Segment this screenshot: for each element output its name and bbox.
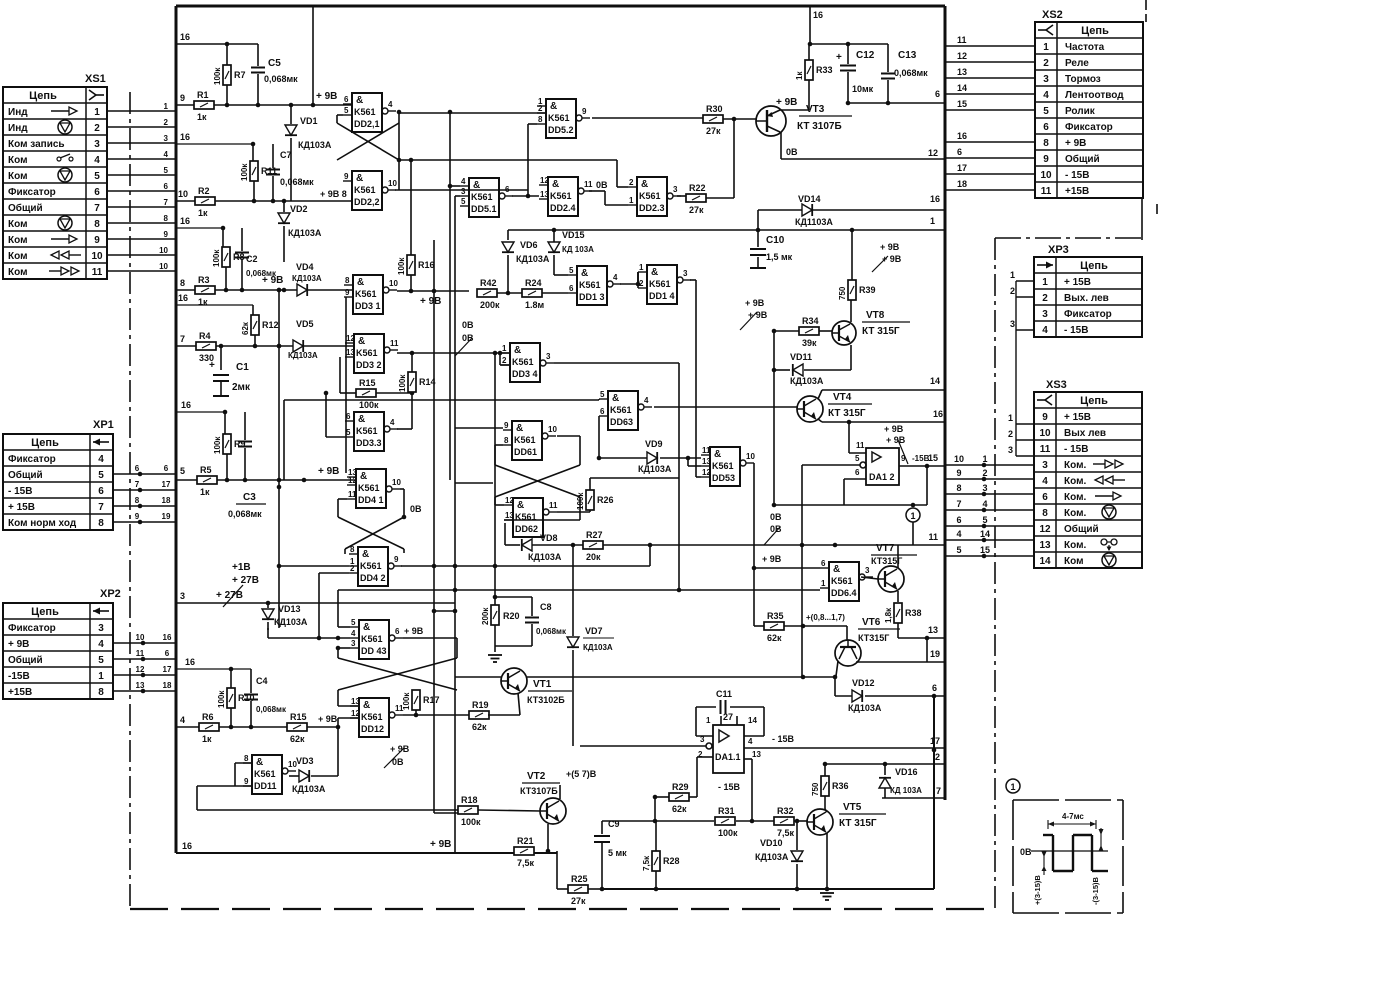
svg-text:5: 5 xyxy=(461,197,466,206)
svg-text:16: 16 xyxy=(180,32,190,42)
svg-text:12: 12 xyxy=(351,709,360,718)
svg-text:R27: R27 xyxy=(586,530,603,540)
svg-text:14: 14 xyxy=(957,83,967,93)
svg-text:0В: 0В xyxy=(770,524,782,534)
svg-text:R7: R7 xyxy=(234,70,246,80)
svg-text:R17: R17 xyxy=(423,695,440,705)
svg-text:+ 9В: + 9В xyxy=(318,466,339,477)
svg-text:Реле: Реле xyxy=(1065,58,1089,69)
svg-text:-15В: -15В xyxy=(8,671,30,682)
svg-text:+ 27В: + 27В xyxy=(232,575,259,586)
svg-text:16: 16 xyxy=(813,10,823,20)
svg-text:DD4 2: DD4 2 xyxy=(360,573,386,583)
svg-text:Инд: Инд xyxy=(8,107,28,118)
svg-text:0В: 0В xyxy=(786,147,798,157)
svg-text:9: 9 xyxy=(394,555,399,564)
svg-text:6: 6 xyxy=(164,464,169,473)
svg-text:2: 2 xyxy=(1008,429,1013,439)
svg-text:VT5: VT5 xyxy=(843,802,862,813)
svg-text:&: & xyxy=(362,549,369,560)
svg-text:K561: K561 xyxy=(356,426,378,436)
svg-text:8: 8 xyxy=(135,496,140,505)
svg-text:11: 11 xyxy=(856,441,865,450)
svg-text:17: 17 xyxy=(930,736,940,746)
svg-text:12: 12 xyxy=(928,148,938,158)
svg-text:DA1.1: DA1.1 xyxy=(715,752,741,762)
svg-text:6: 6 xyxy=(935,89,940,99)
svg-text:C10: C10 xyxy=(766,235,785,246)
svg-text:10: 10 xyxy=(392,478,401,487)
svg-text:+ 9В 8: + 9В 8 xyxy=(320,189,347,199)
svg-text:R12: R12 xyxy=(262,320,279,330)
svg-text:0,068мк: 0,068мк xyxy=(228,509,262,519)
svg-text:R35: R35 xyxy=(767,611,784,621)
svg-text:12: 12 xyxy=(702,468,711,477)
svg-text:3: 3 xyxy=(164,134,169,143)
svg-text:&: & xyxy=(360,471,367,482)
svg-text:Вых лев: Вых лев xyxy=(1064,428,1106,439)
svg-text:8: 8 xyxy=(244,754,249,763)
svg-text:C13: C13 xyxy=(898,50,917,61)
svg-text:13: 13 xyxy=(1039,540,1051,551)
svg-text:5: 5 xyxy=(982,515,987,525)
svg-text:КТ 3107Б: КТ 3107Б xyxy=(797,121,842,132)
svg-text:VD1: VD1 xyxy=(300,116,318,126)
svg-text:VD2: VD2 xyxy=(290,204,308,214)
svg-text:Ком: Ком xyxy=(1064,556,1083,567)
svg-text:DD2,1: DD2,1 xyxy=(354,119,380,129)
svg-text:3: 3 xyxy=(98,623,104,634)
svg-text:8: 8 xyxy=(345,276,350,285)
svg-text:1: 1 xyxy=(930,216,935,226)
svg-text:&: & xyxy=(516,423,523,434)
svg-text:0В: 0В xyxy=(462,320,474,330)
svg-text:1: 1 xyxy=(1042,277,1048,288)
svg-text:39к: 39к xyxy=(802,338,817,348)
svg-text:Ком.: Ком. xyxy=(1064,476,1086,487)
svg-text:16: 16 xyxy=(933,409,943,419)
svg-text:DD11: DD11 xyxy=(254,781,277,791)
svg-text:R15: R15 xyxy=(290,712,307,722)
svg-text:C1: C1 xyxy=(236,362,249,373)
svg-text:5: 5 xyxy=(164,166,169,175)
svg-text:100к: 100к xyxy=(397,257,406,275)
svg-text:3: 3 xyxy=(546,352,551,361)
svg-text:Ком: Ком xyxy=(8,219,27,230)
svg-text:14: 14 xyxy=(930,376,940,386)
svg-text:27к: 27к xyxy=(571,896,586,906)
svg-text:9: 9 xyxy=(1043,154,1049,165)
svg-text:11: 11 xyxy=(928,532,938,542)
svg-text:2: 2 xyxy=(982,468,987,478)
svg-text:15: 15 xyxy=(957,99,967,109)
svg-text:R34: R34 xyxy=(802,316,819,326)
svg-text:K561: K561 xyxy=(354,107,376,117)
svg-text:&: & xyxy=(357,277,364,288)
svg-text:Инд: Инд xyxy=(8,123,28,134)
svg-text:1,8к: 1,8к xyxy=(884,607,893,623)
svg-text:&: & xyxy=(363,700,370,711)
svg-text:750: 750 xyxy=(838,286,847,300)
svg-text:+ 9В: + 9В xyxy=(1065,138,1086,149)
svg-text:13: 13 xyxy=(540,190,549,199)
svg-text:100к: 100к xyxy=(359,400,379,410)
svg-text:R39: R39 xyxy=(859,285,876,295)
svg-text:VD6: VD6 xyxy=(520,240,538,250)
svg-text:+ 9В: + 9В xyxy=(262,275,283,286)
svg-text:VT2: VT2 xyxy=(527,771,546,782)
svg-text:&: & xyxy=(714,449,721,460)
svg-text:+ 27В: + 27В xyxy=(216,590,243,601)
svg-text:DD61: DD61 xyxy=(514,447,537,457)
svg-text:1: 1 xyxy=(1010,782,1015,792)
svg-text:62к: 62к xyxy=(241,321,250,335)
svg-text:R15: R15 xyxy=(359,378,376,388)
svg-text:VD9: VD9 xyxy=(645,439,663,449)
svg-text:10: 10 xyxy=(548,425,557,434)
svg-text:4: 4 xyxy=(164,150,169,159)
svg-text:- 15В: - 15В xyxy=(1064,325,1088,336)
svg-text:&: & xyxy=(256,757,263,768)
svg-text:16: 16 xyxy=(957,131,967,141)
svg-text:КД103А: КД103А xyxy=(848,703,882,713)
svg-text:16: 16 xyxy=(180,216,190,226)
svg-text:4: 4 xyxy=(180,715,185,725)
svg-text:13: 13 xyxy=(752,750,761,759)
svg-text:КД103А: КД103А xyxy=(755,852,789,862)
svg-text:Тормоз: Тормоз xyxy=(1065,74,1101,85)
svg-text:R14: R14 xyxy=(419,377,436,387)
svg-text:3: 3 xyxy=(94,139,100,150)
svg-text:R28: R28 xyxy=(663,856,680,866)
svg-text:8: 8 xyxy=(1043,138,1049,149)
svg-text:КД 103А: КД 103А xyxy=(890,786,922,795)
svg-text:- 15В: - 15В xyxy=(1064,444,1088,455)
svg-text:4: 4 xyxy=(94,155,100,166)
svg-text:3: 3 xyxy=(351,639,356,648)
svg-text:8: 8 xyxy=(98,687,104,698)
svg-text:9: 9 xyxy=(244,777,249,786)
svg-text:16: 16 xyxy=(163,633,172,642)
svg-text:6: 6 xyxy=(344,95,349,104)
svg-text:Ком.: Ком. xyxy=(1064,492,1086,503)
svg-text:16: 16 xyxy=(182,841,192,851)
svg-text:&: & xyxy=(358,336,365,347)
svg-text:4-7мс: 4-7мс xyxy=(1062,812,1084,821)
svg-text:11: 11 xyxy=(1040,444,1051,455)
svg-text:R22: R22 xyxy=(689,183,706,193)
svg-text:6: 6 xyxy=(932,683,937,693)
svg-text:2: 2 xyxy=(1043,58,1049,69)
svg-text:1: 1 xyxy=(629,196,634,205)
svg-text:3: 3 xyxy=(1042,309,1048,320)
svg-text:100к: 100к xyxy=(398,374,407,392)
svg-text:2: 2 xyxy=(538,104,543,113)
svg-text:Ком.: Ком. xyxy=(1064,540,1086,551)
svg-text:3: 3 xyxy=(180,591,185,601)
svg-text:&: & xyxy=(517,500,524,511)
svg-text:3: 3 xyxy=(865,566,870,575)
svg-text:K561: K561 xyxy=(579,280,601,290)
svg-text:100к: 100к xyxy=(212,249,221,267)
svg-text:10: 10 xyxy=(389,279,398,288)
svg-text:1: 1 xyxy=(982,454,987,464)
svg-text:6: 6 xyxy=(957,147,962,157)
svg-text:DD62: DD62 xyxy=(515,524,538,534)
svg-text:7: 7 xyxy=(164,198,169,207)
svg-text:+1В: +1В xyxy=(232,562,251,573)
svg-text:КД103А: КД103А xyxy=(288,228,322,238)
svg-text:5: 5 xyxy=(855,454,860,463)
svg-text:5: 5 xyxy=(98,470,104,481)
svg-text:4: 4 xyxy=(98,454,104,465)
svg-text:1: 1 xyxy=(94,107,100,118)
svg-text:Цепь: Цепь xyxy=(1081,25,1109,37)
svg-text:DD12: DD12 xyxy=(361,724,384,734)
svg-text:R4: R4 xyxy=(199,331,211,341)
svg-text:12: 12 xyxy=(505,496,514,505)
svg-text:1к: 1к xyxy=(197,112,207,122)
svg-text:11: 11 xyxy=(702,446,711,455)
svg-text:Ком.: Ком. xyxy=(1064,460,1086,471)
svg-text:6: 6 xyxy=(600,407,605,416)
svg-text:-(3-15)В: -(3-15)В xyxy=(1091,876,1100,905)
svg-text:R19: R19 xyxy=(472,700,489,710)
svg-text:1к: 1к xyxy=(795,71,804,80)
svg-text:Цепь: Цепь xyxy=(1080,395,1108,407)
svg-text:6: 6 xyxy=(135,464,140,473)
svg-text:13: 13 xyxy=(957,67,967,77)
svg-text:200к: 200к xyxy=(481,607,490,625)
svg-text:Лентоотвод: Лентоотвод xyxy=(1065,90,1124,101)
svg-text:VD11: VD11 xyxy=(790,352,812,362)
svg-text:12: 12 xyxy=(1039,524,1051,535)
svg-text:&: & xyxy=(641,179,648,190)
svg-text:11: 11 xyxy=(549,501,558,510)
svg-text:R42: R42 xyxy=(480,278,497,288)
svg-text:10: 10 xyxy=(159,262,168,271)
svg-text:КТ315Г: КТ315Г xyxy=(858,633,889,643)
svg-text:Фиксатор: Фиксатор xyxy=(8,454,56,465)
svg-text:K561: K561 xyxy=(514,435,536,445)
svg-text:+ 9В: + 9В xyxy=(404,626,424,636)
svg-text:10: 10 xyxy=(954,454,964,464)
svg-text:3: 3 xyxy=(683,269,688,278)
svg-text:16: 16 xyxy=(185,657,195,667)
svg-text:КТ 315Г: КТ 315Г xyxy=(839,818,877,829)
svg-text:4: 4 xyxy=(1043,90,1049,101)
svg-text:0В: 0В xyxy=(410,504,422,514)
svg-text:+15В: +15В xyxy=(1065,186,1089,197)
svg-text:Ком запись: Ком запись xyxy=(8,139,65,150)
svg-text:XP1: XP1 xyxy=(93,419,114,431)
svg-text:+ 9В: + 9В xyxy=(884,424,904,434)
svg-text:2: 2 xyxy=(94,123,100,134)
svg-text:R18: R18 xyxy=(461,795,478,805)
svg-text:3: 3 xyxy=(673,185,678,194)
svg-text:КД103А: КД103А xyxy=(516,254,550,264)
svg-text:1к: 1к xyxy=(202,734,212,744)
svg-text:3: 3 xyxy=(1010,319,1015,329)
svg-text:0В: 0В xyxy=(770,512,782,522)
svg-text:&: & xyxy=(514,345,521,356)
svg-text:C7: C7 xyxy=(280,150,292,160)
svg-text:6: 6 xyxy=(821,559,826,568)
svg-text:КД103А: КД103А xyxy=(528,552,562,562)
svg-text:R1: R1 xyxy=(197,90,209,100)
svg-text:DD2,2: DD2,2 xyxy=(354,197,380,207)
svg-text:КТ3102Б: КТ3102Б xyxy=(527,695,565,705)
svg-text:11: 11 xyxy=(1041,186,1052,197)
svg-text:6: 6 xyxy=(395,627,400,636)
svg-text:18: 18 xyxy=(957,179,967,189)
svg-text:12: 12 xyxy=(540,176,549,185)
svg-text:4: 4 xyxy=(748,737,753,746)
svg-text:1к: 1к xyxy=(200,487,210,497)
svg-text:&: & xyxy=(358,414,365,425)
svg-text:КТ 315Г: КТ 315Г xyxy=(862,326,900,337)
svg-text:2: 2 xyxy=(350,564,355,573)
svg-text:13: 13 xyxy=(702,457,711,466)
svg-text:R21: R21 xyxy=(517,836,534,846)
svg-text:DD4 1: DD4 1 xyxy=(358,495,384,505)
svg-text:6: 6 xyxy=(98,486,104,497)
svg-text:8: 8 xyxy=(98,518,104,529)
svg-text:R32: R32 xyxy=(777,806,794,816)
svg-text:КД103А: КД103А xyxy=(292,784,326,794)
svg-text:8: 8 xyxy=(94,219,100,230)
svg-text:1: 1 xyxy=(706,716,711,725)
svg-text:XS2: XS2 xyxy=(1042,9,1063,21)
svg-text:13: 13 xyxy=(351,697,360,706)
svg-text:+ 9В: + 9В xyxy=(8,639,29,650)
svg-text:+(0,8...1,7): +(0,8...1,7) xyxy=(806,613,845,622)
svg-text:0,068мк: 0,068мк xyxy=(280,177,314,187)
svg-text:+15В: +15В xyxy=(8,687,32,698)
svg-text:+ 9В: + 9В xyxy=(316,91,337,102)
svg-text:Ком: Ком xyxy=(8,171,27,182)
svg-text:2: 2 xyxy=(502,356,507,365)
svg-text:DA1 2: DA1 2 xyxy=(869,472,895,482)
svg-text:4: 4 xyxy=(98,639,104,650)
svg-text:K561: K561 xyxy=(712,461,734,471)
svg-text:7: 7 xyxy=(936,786,941,796)
svg-text:8: 8 xyxy=(180,278,185,288)
svg-text:K561: K561 xyxy=(550,191,572,201)
svg-text:Ком: Ком xyxy=(8,251,27,262)
svg-text:11: 11 xyxy=(584,180,593,189)
svg-text:10: 10 xyxy=(1039,428,1051,439)
svg-text:9: 9 xyxy=(1042,412,1048,423)
svg-text:0,068мк: 0,068мк xyxy=(264,74,298,84)
svg-text:K561: K561 xyxy=(355,289,377,299)
svg-text:1: 1 xyxy=(821,579,826,588)
svg-text:DD2.4: DD2.4 xyxy=(550,203,576,213)
svg-text:Ком: Ком xyxy=(8,155,27,166)
svg-text:5: 5 xyxy=(98,655,104,666)
svg-text:КД 103А: КД 103А xyxy=(562,245,594,254)
svg-text:K561: K561 xyxy=(361,712,383,722)
svg-text:Ком: Ком xyxy=(8,267,27,278)
svg-text:VD12: VD12 xyxy=(852,678,875,688)
svg-text:5: 5 xyxy=(569,266,574,275)
svg-text:4: 4 xyxy=(461,177,466,186)
svg-text:4: 4 xyxy=(1042,325,1048,336)
svg-text:K561: K561 xyxy=(831,576,853,586)
svg-text:1: 1 xyxy=(910,511,915,521)
svg-text:15: 15 xyxy=(928,453,938,463)
svg-text:12: 12 xyxy=(348,476,357,485)
svg-text:14: 14 xyxy=(980,529,990,539)
svg-text:0,068мк: 0,068мк xyxy=(256,705,287,714)
svg-text:Фиксатор: Фиксатор xyxy=(8,623,56,634)
svg-text:КД103А: КД103А xyxy=(292,274,322,283)
svg-text:1.8м: 1.8м xyxy=(525,300,545,310)
svg-text:4: 4 xyxy=(613,273,618,282)
svg-text:10: 10 xyxy=(91,251,103,262)
svg-text:VT7: VT7 xyxy=(876,543,895,554)
svg-text:DD3 1: DD3 1 xyxy=(355,301,381,311)
svg-text:100к: 100к xyxy=(461,817,481,827)
svg-text:R24: R24 xyxy=(525,278,542,288)
svg-text:Ком.: Ком. xyxy=(1064,508,1086,519)
svg-text:6: 6 xyxy=(956,515,961,525)
svg-text:K561: K561 xyxy=(471,192,493,202)
svg-text:14: 14 xyxy=(1039,556,1051,567)
svg-text:0,068мк: 0,068мк xyxy=(894,68,928,78)
svg-text:10: 10 xyxy=(136,633,145,642)
svg-text:17: 17 xyxy=(163,665,172,674)
svg-text:5: 5 xyxy=(1043,106,1049,117)
svg-text:K561: K561 xyxy=(361,634,383,644)
svg-text:750: 750 xyxy=(811,782,820,796)
svg-text:100к: 100к xyxy=(213,67,222,85)
svg-text:C4: C4 xyxy=(256,676,268,686)
svg-text:XP3: XP3 xyxy=(1048,244,1069,256)
svg-text:Общий: Общий xyxy=(8,469,43,481)
svg-text:19: 19 xyxy=(162,512,171,521)
svg-text:100к: 100к xyxy=(240,163,249,181)
svg-text:+: + xyxy=(836,52,842,63)
svg-text:7,5к: 7,5к xyxy=(777,828,795,838)
svg-text:1: 1 xyxy=(1008,413,1013,423)
svg-text:13: 13 xyxy=(505,511,514,520)
svg-text:Общий: Общий xyxy=(1064,523,1099,535)
svg-text:VD5: VD5 xyxy=(296,319,314,329)
svg-text:+: + xyxy=(209,360,215,371)
svg-text:100к: 100к xyxy=(718,828,738,838)
svg-text:VD15: VD15 xyxy=(562,230,585,240)
svg-text:1: 1 xyxy=(639,263,644,272)
svg-text:R33: R33 xyxy=(816,65,833,75)
svg-text:0В: 0В xyxy=(596,180,608,190)
svg-text:Фиксатор: Фиксатор xyxy=(1065,122,1113,133)
svg-text:3: 3 xyxy=(700,735,705,744)
svg-text:5 мк: 5 мк xyxy=(608,848,627,858)
svg-text:VD4: VD4 xyxy=(296,262,314,272)
svg-text:1к: 1к xyxy=(198,208,208,218)
svg-text:Общий: Общий xyxy=(8,654,43,666)
svg-text:8: 8 xyxy=(956,483,961,493)
svg-text:+ 9В: + 9В xyxy=(762,554,782,564)
svg-text:0В: 0В xyxy=(1020,847,1032,857)
svg-text:DD1 4: DD1 4 xyxy=(649,291,675,301)
svg-text:+ 9В: + 9В xyxy=(886,435,906,445)
svg-text:62к: 62к xyxy=(472,722,487,732)
svg-text:6: 6 xyxy=(1042,492,1048,503)
svg-text:9: 9 xyxy=(164,230,169,239)
svg-text:10: 10 xyxy=(159,246,168,255)
